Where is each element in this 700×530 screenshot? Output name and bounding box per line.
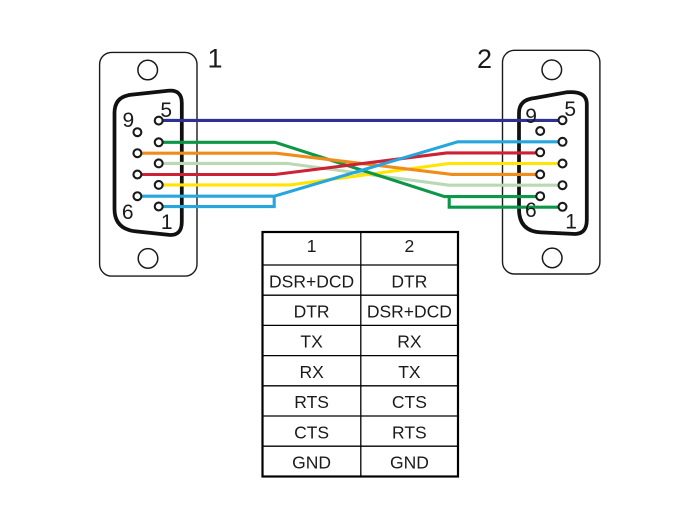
svg-text:6: 6 bbox=[122, 201, 134, 224]
svg-text:1: 1 bbox=[207, 43, 222, 73]
connector 2 pin 1 bbox=[559, 203, 567, 211]
connector 1 D-shell bbox=[115, 91, 182, 235]
svg-text:DSR+DCD: DSR+DCD bbox=[269, 271, 354, 291]
svg-text:CTS: CTS bbox=[294, 422, 329, 442]
svg-text:RX: RX bbox=[397, 332, 422, 352]
svg-text:2: 2 bbox=[405, 236, 415, 256]
signal table row line 2 bbox=[263, 294, 459, 296]
svg-text:1: 1 bbox=[161, 211, 173, 234]
connector 2 body bbox=[503, 50, 600, 274]
svg-text:RTS: RTS bbox=[392, 422, 427, 442]
signal table row line 4 bbox=[263, 355, 459, 357]
connector 1 pin 5 bbox=[155, 117, 163, 125]
svg-text:5: 5 bbox=[160, 99, 172, 122]
wire RX1 to TX2 yellow bbox=[159, 164, 563, 185]
svg-text:DSR+DCD: DSR+DCD bbox=[367, 302, 452, 322]
connector 2 pin 9 bbox=[536, 127, 544, 135]
connector 1 pin 4 bbox=[155, 138, 163, 146]
svg-text:1: 1 bbox=[565, 211, 577, 234]
connector 1 pin 3 bbox=[155, 159, 163, 167]
signal table row line 6 bbox=[263, 415, 459, 417]
connector 2 D-shell bbox=[519, 92, 587, 234]
svg-text:RX: RX bbox=[299, 362, 324, 382]
svg-text:CTS: CTS bbox=[392, 392, 427, 412]
svg-text:5: 5 bbox=[564, 98, 576, 121]
wire GND pin5-to-pin5 dark blue bbox=[159, 119, 563, 122]
connector 2 pin 2 bbox=[559, 181, 567, 189]
signal table column divider bbox=[360, 232, 362, 477]
connector 2 pin 7 bbox=[536, 170, 544, 178]
svg-text:RTS: RTS bbox=[294, 392, 329, 412]
svg-text:DTR: DTR bbox=[294, 302, 330, 322]
wire DTR1 to DSR+DCD2 green bbox=[159, 142, 563, 207]
svg-text:TX: TX bbox=[300, 332, 323, 352]
svg-text:1: 1 bbox=[307, 236, 317, 256]
svg-text:6: 6 bbox=[525, 199, 537, 222]
connector 2 pin 6 bbox=[536, 192, 544, 200]
connector 1 pin 6 bbox=[133, 192, 141, 200]
wire DSR+DCD1 to DTR2 cyan bbox=[137, 142, 562, 207]
signal table row line 1 bbox=[263, 264, 459, 266]
connector 1 bottom mounting hole bbox=[138, 249, 158, 269]
svg-text:GND: GND bbox=[292, 453, 331, 473]
connector 2 pin 5 bbox=[559, 116, 567, 124]
svg-text:9: 9 bbox=[525, 105, 537, 128]
connector 2 top mounting hole bbox=[542, 60, 562, 80]
wire RTS1 to CTS2 red bbox=[137, 153, 540, 175]
connector 2 bottom mounting hole bbox=[542, 248, 562, 268]
connector 2 pin 4 bbox=[559, 138, 567, 146]
wire CTS1 to RTS2 orange bbox=[137, 153, 540, 174]
connector 2 pin 8 bbox=[536, 148, 544, 156]
connector 1 body bbox=[100, 52, 197, 276]
connector 1 pin 2 bbox=[155, 181, 163, 189]
connector 2 pin 3 bbox=[559, 160, 567, 168]
svg-text:GND: GND bbox=[390, 453, 429, 473]
signal table frame bbox=[263, 232, 459, 477]
signal table row line 5 bbox=[263, 385, 459, 387]
signal table row line 7 bbox=[263, 445, 459, 447]
signal table row line 3 bbox=[263, 324, 459, 326]
connector 1 pin 9 bbox=[133, 128, 141, 136]
svg-text:TX: TX bbox=[398, 362, 421, 382]
connector 1 pin 1 bbox=[155, 203, 163, 211]
svg-text:9: 9 bbox=[122, 109, 134, 132]
connector 1 top mounting hole bbox=[138, 60, 158, 80]
svg-text:2: 2 bbox=[477, 44, 492, 74]
wire TX1 to RX2 pale green bbox=[159, 163, 563, 185]
connector 1 pin 8 bbox=[133, 149, 141, 157]
connector 1 pin 7 bbox=[133, 171, 141, 179]
svg-text:DTR: DTR bbox=[391, 271, 427, 291]
